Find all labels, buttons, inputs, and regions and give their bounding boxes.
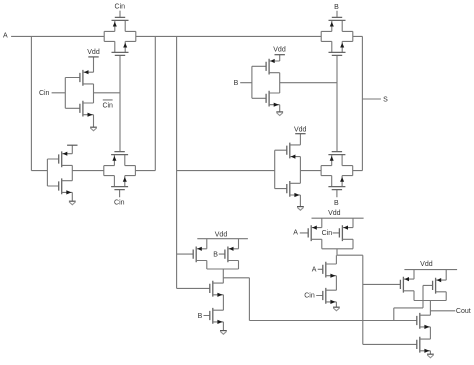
svg-text:Cout: Cout — [456, 308, 471, 315]
svg-text:Vdd: Vdd — [87, 49, 100, 56]
svg-text:B: B — [334, 4, 339, 11]
svg-text:A: A — [293, 229, 298, 236]
svg-text:Vdd: Vdd — [294, 126, 307, 133]
svg-text:Vdd: Vdd — [328, 210, 341, 217]
svg-text:B: B — [334, 200, 339, 207]
svg-text:Vdd: Vdd — [215, 231, 228, 238]
svg-text:Vdd: Vdd — [420, 261, 433, 268]
svg-text:Vdd: Vdd — [273, 47, 286, 54]
svg-text:Cin: Cin — [322, 230, 333, 237]
svg-text:A: A — [3, 33, 8, 40]
svg-text:S: S — [383, 97, 388, 104]
svg-text:B: B — [213, 252, 218, 259]
svg-text:Cin: Cin — [114, 199, 125, 206]
svg-text:A: A — [312, 266, 317, 273]
svg-text:B: B — [234, 80, 239, 87]
svg-text:Cin: Cin — [39, 90, 50, 97]
svg-text:Cin: Cin — [115, 4, 126, 11]
svg-text:B: B — [198, 313, 203, 320]
svg-text:Cin: Cin — [102, 102, 113, 109]
svg-text:Cin: Cin — [304, 293, 315, 300]
